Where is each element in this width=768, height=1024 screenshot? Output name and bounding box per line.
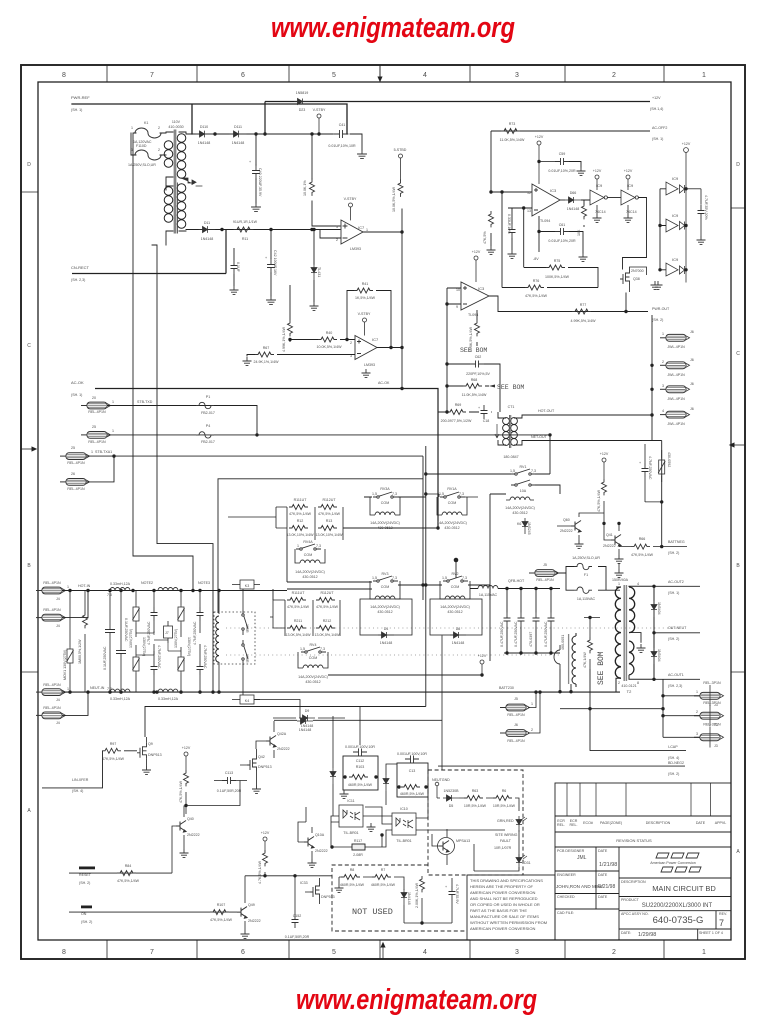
svg-text:R112UT: R112UT (322, 498, 336, 502)
snubber C13 box (397, 763, 428, 797)
wire hot2 riser (62, 591, 88, 618)
svg-text:D31: D31 (524, 861, 531, 865)
svg-text:REL.: REL. (570, 823, 578, 827)
svg-text:REL-4P1N: REL-4P1N (67, 461, 85, 465)
svg-text:91UR,1R,1/1W: 91UR,1R,1/1W (233, 220, 258, 224)
svg-text:+12V: +12V (182, 746, 191, 750)
svg-text:1N5230B: 1N5230B (444, 789, 460, 793)
svg-text:LIN-XFER: LIN-XFER (72, 778, 89, 782)
svg-text:2: 2 (612, 72, 616, 79)
svg-text:47K,5%,1/4W: 47K,5%,1/4W (117, 879, 140, 883)
svg-text:1N4148: 1N4148 (567, 207, 580, 211)
svg-text:PART AS THE BASIS FOR THE: PART AS THE BASIS FOR THE (470, 908, 527, 913)
svg-text:0.1UF,50R,20R: 0.1UF,50R,20R (217, 789, 242, 793)
ground C59 (577, 167, 586, 175)
svg-text:5: 5 (332, 949, 336, 956)
ground C41 (358, 150, 367, 158)
svg-text:13.0K,5%,1/4W: 13.0K,5%,1/4W (286, 633, 312, 637)
diode D6 zener (522, 518, 528, 534)
svg-text:1/21/98: 1/21/98 (599, 862, 617, 868)
svg-text:D11: D11 (204, 221, 210, 225)
connector J3-1 (694, 692, 724, 699)
svg-text:8: 8 (62, 949, 66, 956)
ground Q41 (615, 555, 624, 563)
svg-text:74C14: 74C14 (595, 210, 606, 214)
svg-text:1N4148: 1N4148 (407, 892, 411, 905)
svg-text:1N5404: 1N5404 (657, 602, 661, 615)
svg-text:7,3: 7,3 (392, 576, 397, 580)
svg-text:APCC ASSY NO.: APCC ASSY NO. (621, 912, 649, 916)
svg-text:LM393: LM393 (350, 247, 361, 251)
svg-text:(SH. 2,3): (SH. 2,3) (668, 684, 682, 688)
wire relay row crossbus (273, 497, 490, 600)
resistor R214 (316, 626, 335, 631)
svg-text:AC-OK: AC-OK (71, 380, 84, 385)
svg-text:PAGE(ZONE): PAGE(ZONE) (600, 821, 622, 825)
svg-text:5: 5 (332, 72, 336, 79)
svg-text:J4: J4 (56, 624, 60, 628)
wire Q42 gate net (186, 781, 247, 806)
capacitor C62 (470, 361, 484, 368)
svg-text:(SH. 2): (SH. 2) (652, 318, 663, 322)
inverter IC9b (621, 190, 638, 205)
svg-text:200-0977,5%,1/2W: 200-0977,5%,1/2W (441, 419, 472, 423)
svg-text:RV3A: RV3A (380, 487, 390, 491)
wire secondary rail (186, 229, 340, 231)
svg-text:430-0512: 430-0512 (447, 610, 462, 614)
svg-text:Q41: Q41 (606, 533, 613, 537)
svg-text:(SH. 1): (SH. 1) (71, 393, 82, 397)
relay RV4 coil (303, 665, 323, 668)
svg-text:P1: P1 (206, 395, 210, 399)
svg-text:14A,200V(24VDC): 14A,200V(24VDC) (505, 506, 535, 510)
svg-text:25: 25 (71, 446, 75, 450)
capacitor CX1 (105, 624, 115, 633)
svg-text:REV.: REV. (719, 912, 727, 916)
svg-text:+12V: +12V (261, 831, 270, 835)
resistor R59 pullup (602, 479, 607, 495)
svg-text:2: 2 (336, 238, 338, 242)
wire 12V rail top (186, 134, 362, 150)
svg-text:SEE BOM: SEE BOM (497, 384, 524, 391)
wire C40 (255, 134, 257, 203)
transistor Q9 MOSFET (137, 743, 147, 759)
transistor Q42A (266, 736, 276, 748)
ground bypass cap (697, 236, 706, 244)
resistor damper (588, 637, 593, 653)
resistor R67 (255, 352, 274, 357)
svg-text:TIL-BR01: TIL-BR01 (396, 839, 411, 843)
node (213, 132, 216, 135)
relay RV1A coil (442, 512, 462, 515)
svg-text:MANUFACTURE OR SALE OF ITEMS: MANUFACTURE OR SALE OF ITEMS (470, 914, 539, 919)
svg-text:4.7UF,35.9V: 4.7UF,35.9V (455, 884, 459, 904)
svg-text:1N4148: 1N4148 (452, 641, 465, 645)
svg-text:BATTNEG: BATTNEG (668, 540, 685, 544)
svg-text:6: 6 (241, 949, 245, 956)
wire T2 secondary pins (629, 586, 654, 679)
wire I-CAP (590, 750, 686, 752)
driver buffer IC9c (666, 182, 685, 195)
capacitor CY3 (197, 607, 204, 621)
svg-text:V-STBY: V-STBY (344, 197, 357, 201)
capacitor CY2 (151, 661, 158, 675)
svg-text:14A,200V(24VDC): 14A,200V(24VDC) (370, 521, 400, 525)
connector J6-3 (660, 386, 690, 393)
transformer T2 primary (615, 587, 621, 678)
svg-text:(SH. 1): (SH. 1) (668, 591, 679, 595)
supply +12V coil rail (480, 660, 484, 675)
wire bypass bottom (645, 501, 662, 503)
svg-text:ECO#: ECO# (583, 821, 593, 825)
svg-text:STB-TXA1: STB-TXA1 (95, 450, 112, 454)
svg-text:1: 1 (702, 949, 706, 956)
svg-text:E/21/98: E/21/98 (598, 884, 615, 890)
capacitor C152 (292, 914, 299, 928)
resistor R107 (210, 910, 229, 915)
svg-text:D5: D5 (449, 804, 454, 808)
svg-text:J6: J6 (514, 723, 518, 727)
wire K4 link (254, 700, 300, 719)
svg-text:3: 3 (662, 384, 664, 388)
svg-text:1N4148: 1N4148 (232, 141, 245, 145)
svg-text:V-STBY: V-STBY (358, 312, 371, 316)
capacitor bank C1 (504, 613, 511, 627)
wire node riser (455, 560, 457, 578)
svg-text:+: + (445, 885, 447, 889)
wire row1 (107, 406, 257, 435)
wire IC3a output (560, 199, 565, 201)
svg-text:4.99K,5%,1/4W: 4.99K,5%,1/4W (571, 319, 597, 323)
wire grid to AC-OK bus (228, 507, 287, 528)
svg-text:R8: R8 (350, 868, 355, 872)
svg-text:COM: COM (448, 501, 456, 505)
svg-text:24.9K,1%,1/4W: 24.9K,1%,1/4W (254, 360, 280, 364)
choke contacts (242, 610, 248, 635)
op-amp IC7a (341, 220, 363, 244)
wire IC3a minus input (508, 208, 532, 268)
svg-text:7,3: 7,3 (316, 544, 321, 548)
svg-text:+12V: +12V (472, 250, 481, 254)
svg-text:REL-3P1N: REL-3P1N (703, 681, 721, 685)
ground TL431 (310, 302, 319, 310)
svg-text:REL-4P1N: REL-4P1N (43, 581, 61, 585)
connector J4 pin26a (60, 453, 90, 460)
svg-text:Q49: Q49 (248, 903, 255, 907)
hook loop pickup (554, 645, 560, 669)
svg-text:JML: JML (577, 855, 587, 861)
wire section box outline (218, 479, 423, 613)
wire AC-OFF2 (491, 131, 650, 192)
svg-text:7,3: 7,3 (462, 576, 467, 580)
capacitor C18 polarized (481, 405, 488, 419)
svg-text:0.01UF,10%,10R: 0.01UF,10%,10R (328, 144, 356, 148)
op-amp IC7b (355, 336, 377, 360)
svg-text:C41: C41 (339, 123, 346, 127)
resistor 4.99K vertical (288, 320, 293, 336)
svg-text:SEE BOM: SEE BOM (597, 651, 606, 685)
svg-text:1: 1 (702, 72, 706, 79)
svg-text:1N5245: 1N5245 (527, 522, 531, 535)
dashed box site wiring (428, 770, 523, 875)
resistor R213 (287, 626, 306, 631)
svg-text:IC9: IC9 (672, 176, 679, 181)
supply +12V IC9a (595, 175, 599, 190)
svg-text:+: + (265, 256, 267, 260)
ground C43 (267, 296, 276, 304)
supply stub V-STBY opamp2 (363, 318, 367, 336)
transistor Q38 MOSFET (620, 269, 630, 285)
ground cap (508, 250, 517, 258)
svg-text:D9: D9 (305, 709, 310, 713)
svg-text:GRN,RED: GRN,RED (497, 819, 514, 823)
svg-text:R211: R211 (294, 619, 302, 623)
relay K3 marker box (240, 580, 254, 589)
svg-text:MPSA13: MPSA13 (456, 839, 470, 843)
node (254, 132, 257, 135)
svg-text:410-0030: 410-0030 (168, 125, 183, 129)
relay RV2 coil (445, 596, 465, 599)
svg-text:14A,200V(24VDC): 14A,200V(24VDC) (295, 570, 325, 574)
connector J4 neut2 (36, 712, 66, 719)
optocoupler IC10 (392, 813, 416, 835)
svg-text:STB-TXD: STB-TXD (137, 400, 153, 404)
svg-text:100K,5%,1/4W: 100K,5%,1/4W (545, 275, 570, 279)
ground Q60 (575, 540, 584, 548)
svg-text:D110: D110 (200, 125, 208, 129)
diode D110 (196, 131, 212, 137)
svg-text:1: 1 (112, 400, 114, 404)
ground C42 (230, 286, 239, 294)
svg-text:1: 1 (366, 228, 368, 232)
svg-text:8: 8 (62, 72, 66, 79)
resistor R68 (463, 384, 482, 389)
svg-text:1A,250V,SLO,UR: 1A,250V,SLO,UR (572, 556, 600, 560)
wire grid A output (343, 527, 438, 529)
svg-text:D: D (736, 162, 740, 168)
svg-text:Q9: Q9 (148, 742, 153, 746)
svg-text:CN-RECT: CN-RECT (71, 265, 90, 270)
svg-text:460R,5%,1/4W: 460R,5%,1/4W (348, 783, 373, 787)
svg-text:(SH. 2): (SH. 2) (668, 551, 679, 555)
wire AC-OK bus (95, 389, 438, 529)
svg-text:SU2200/2200XL/3000 INT: SU2200/2200XL/3000 INT (642, 903, 713, 909)
wire IC3a plus input (491, 192, 532, 288)
svg-text:J4: J4 (56, 698, 60, 702)
svg-text:J4: J4 (56, 721, 60, 725)
svg-text:R40: R40 (326, 331, 333, 335)
wire OUT-NEUT (654, 632, 700, 634)
svg-text:AMERICAN POWER CONVERSION: AMERICAN POWER CONVERSION (470, 890, 535, 895)
svg-text:+12V: +12V (600, 452, 609, 456)
svg-text:DATE: DATE (696, 821, 706, 825)
wire led chain (437, 798, 519, 871)
connector J4 pin26b (60, 479, 90, 486)
wire IC3b output to PWR-OUT (489, 296, 648, 312)
wire Q49 collector rail (245, 875, 332, 877)
varistor MOV2 (133, 605, 140, 623)
svg-text:14A,200V(24VDC): 14A,200V(24VDC) (437, 521, 467, 525)
svg-text:R76: R76 (533, 279, 540, 283)
svg-text:2N2222: 2N2222 (315, 849, 328, 853)
svg-text:J6: J6 (690, 330, 694, 334)
svg-text:J3: J3 (714, 744, 718, 748)
svg-text:R75: R75 (554, 259, 561, 263)
svg-text:COM: COM (381, 585, 389, 589)
svg-text:www.enigmateam.org: www.enigmateam.org (271, 12, 515, 44)
connector J6-1 (660, 334, 690, 341)
svg-text:REL-4P1N: REL-4P1N (43, 608, 61, 612)
svg-text:7.6: 7.6 (107, 593, 112, 597)
svg-text:RV3: RV3 (382, 572, 389, 576)
ground opto (367, 823, 376, 831)
diode D21 (330, 768, 336, 784)
svg-text:+: + (478, 406, 480, 410)
fold arrow left (21, 448, 33, 450)
svg-text:AC-OK: AC-OK (378, 381, 390, 385)
LED D30 bicolor (516, 816, 522, 832)
diode DN1 (401, 889, 407, 905)
resistor R76 (525, 285, 544, 290)
svg-text:R66: R66 (639, 537, 646, 541)
svg-text:HEREIN ARE THE PROPERTY OF: HEREIN ARE THE PROPERTY OF (470, 884, 533, 889)
resistor input bias vertical (489, 211, 494, 227)
resistor R77 (572, 309, 591, 314)
svg-text:1K,5%,1/4W: 1K,5%,1/4W (355, 296, 376, 300)
resistor R113 (289, 526, 308, 531)
svg-text:R73: R73 (509, 122, 516, 126)
resistor RN2 (372, 875, 391, 880)
wire bottom rail 2 (560, 669, 663, 751)
resistor R73 (501, 129, 520, 134)
svg-text:(SH. 4): (SH. 4) (668, 756, 679, 760)
svg-text:K6: K6 (517, 522, 521, 526)
resistor R66 (631, 544, 650, 549)
ground IC9b (624, 214, 633, 222)
svg-text:HOT-IN: HOT-IN (78, 584, 91, 588)
svg-text:IC7: IC7 (372, 337, 379, 342)
svg-text:K1: K1 (144, 121, 148, 125)
supply +12V buffers (684, 148, 689, 283)
svg-text:(SH. 2): (SH. 2) (79, 881, 90, 885)
wire IC9b output down to Q38 (623, 198, 647, 270)
svg-text:7,3: 7,3 (392, 492, 397, 496)
svg-text:(SH. 2): (SH. 2) (668, 772, 679, 776)
wire xfer top rail (145, 707, 426, 738)
svg-text:1A,115VAC: 1A,115VAC (577, 597, 596, 601)
svg-text:JOHN,RON AND MIKE: JOHN,RON AND MIKE (556, 884, 603, 889)
svg-text:+12V: +12V (478, 654, 487, 658)
wire BD-NEG2 (438, 765, 685, 767)
svg-text:Q60: Q60 (563, 518, 570, 522)
resistor R104 (263, 850, 268, 866)
svg-text:13.0K,10%,1/4W: 13.0K,10%,1/4W (287, 533, 315, 537)
svg-text:OR COPIED OR USED IN WHOLE OR: OR COPIED OR USED IN WHOLE OR (470, 902, 540, 907)
svg-text:REL-3P1N: REL-3P1N (703, 701, 721, 705)
svg-text:2N2222: 2N2222 (248, 919, 261, 923)
wire buffer input bus (660, 189, 666, 270)
svg-text:HOT-OUT: HOT-OUT (538, 409, 555, 413)
svg-text:DATE: DATE (598, 849, 608, 853)
svg-text:0.01UF,10%,20R: 0.01UF,10%,20R (548, 169, 576, 173)
resistor divider R upper (310, 179, 315, 195)
arrow CT1 (495, 424, 499, 438)
svg-text:OUT-NEUT: OUT-NEUT (668, 626, 687, 630)
wire IC3a negative rail (539, 216, 583, 254)
zone numbers top (62, 72, 706, 79)
svg-text:460-0051: 460-0051 (561, 635, 565, 650)
ground Q10A (308, 859, 317, 867)
wire RV2 flyback rect (430, 599, 482, 635)
svg-text:FB2-017: FB2-017 (201, 440, 215, 444)
svg-text:LM393: LM393 (364, 363, 375, 367)
dashed box not used (332, 865, 467, 931)
svg-text:10A: 10A (520, 489, 527, 493)
svg-text:R117: R117 (354, 839, 362, 843)
center tap stub (180, 178, 202, 186)
svg-text:+12V: +12V (624, 169, 633, 173)
svg-text:R68: R68 (471, 378, 478, 382)
svg-text:2N7000: 2N7000 (631, 269, 644, 273)
svg-text:REL-4P1N: REL-4P1N (536, 578, 554, 582)
supply +12V Q41 (602, 458, 606, 479)
ground snubber1 (340, 790, 349, 798)
connector J4 hot (36, 587, 66, 594)
wire mid rail (136, 631, 181, 655)
revision status table (555, 783, 731, 847)
wire HOT-IN bus (62, 590, 287, 592)
svg-text:0.001UF,100V,10R: 0.001UF,100V,10R (397, 752, 427, 756)
resistor grid B box (285, 600, 340, 636)
inductor QFB choke (478, 586, 498, 589)
capacitor C61 (555, 228, 569, 235)
svg-text:150R/40A: 150R/40A (612, 578, 629, 582)
capacitor 4.7UF bypass (698, 205, 705, 219)
transistor MPSA13 (439, 841, 449, 853)
svg-text:8: 8 (637, 681, 639, 685)
svg-text:REL-4P1N: REL-4P1N (43, 683, 61, 687)
svg-text:47K,5%,1/4W: 47K,5%,1/4W (289, 512, 312, 516)
svg-text:7,3: 7,3 (531, 469, 536, 473)
LED D31 bicolor (516, 854, 522, 870)
svg-text:R7: R7 (381, 868, 386, 872)
svg-text:DATE: DATE (598, 895, 608, 899)
svg-text:J5: J5 (514, 697, 518, 701)
svg-text:4.7NF,250VAC: 4.7NF,250VAC (203, 645, 207, 669)
capacitor CY4 (197, 661, 204, 675)
wire RV1A to bus (426, 494, 478, 497)
transformer L1 core (174, 130, 177, 233)
svg-text:1: 1 (297, 544, 299, 548)
feedback resistor R41 (354, 288, 373, 293)
wire J3 bus (662, 679, 664, 737)
wire bottom rail 1 (560, 669, 571, 692)
svg-text:J6: J6 (690, 358, 694, 362)
ground C40 (252, 203, 261, 211)
svg-text:R67: R67 (263, 346, 270, 350)
svg-text:D66: D66 (570, 191, 577, 195)
svg-text:2: 2 (696, 710, 698, 714)
relay RV4A coil (300, 560, 320, 563)
transformer T2 secondary (629, 587, 635, 675)
relay K1 fuse a (135, 128, 161, 138)
svg-text:1: 1 (531, 702, 533, 706)
svg-text:SITE WIRING: SITE WIRING (495, 833, 518, 837)
driver buffer IC9e (666, 263, 685, 276)
svg-text:430-0512: 430-0512 (302, 575, 317, 579)
capacitor bank C3 (533, 613, 540, 627)
transistor Q60 (571, 521, 581, 533)
